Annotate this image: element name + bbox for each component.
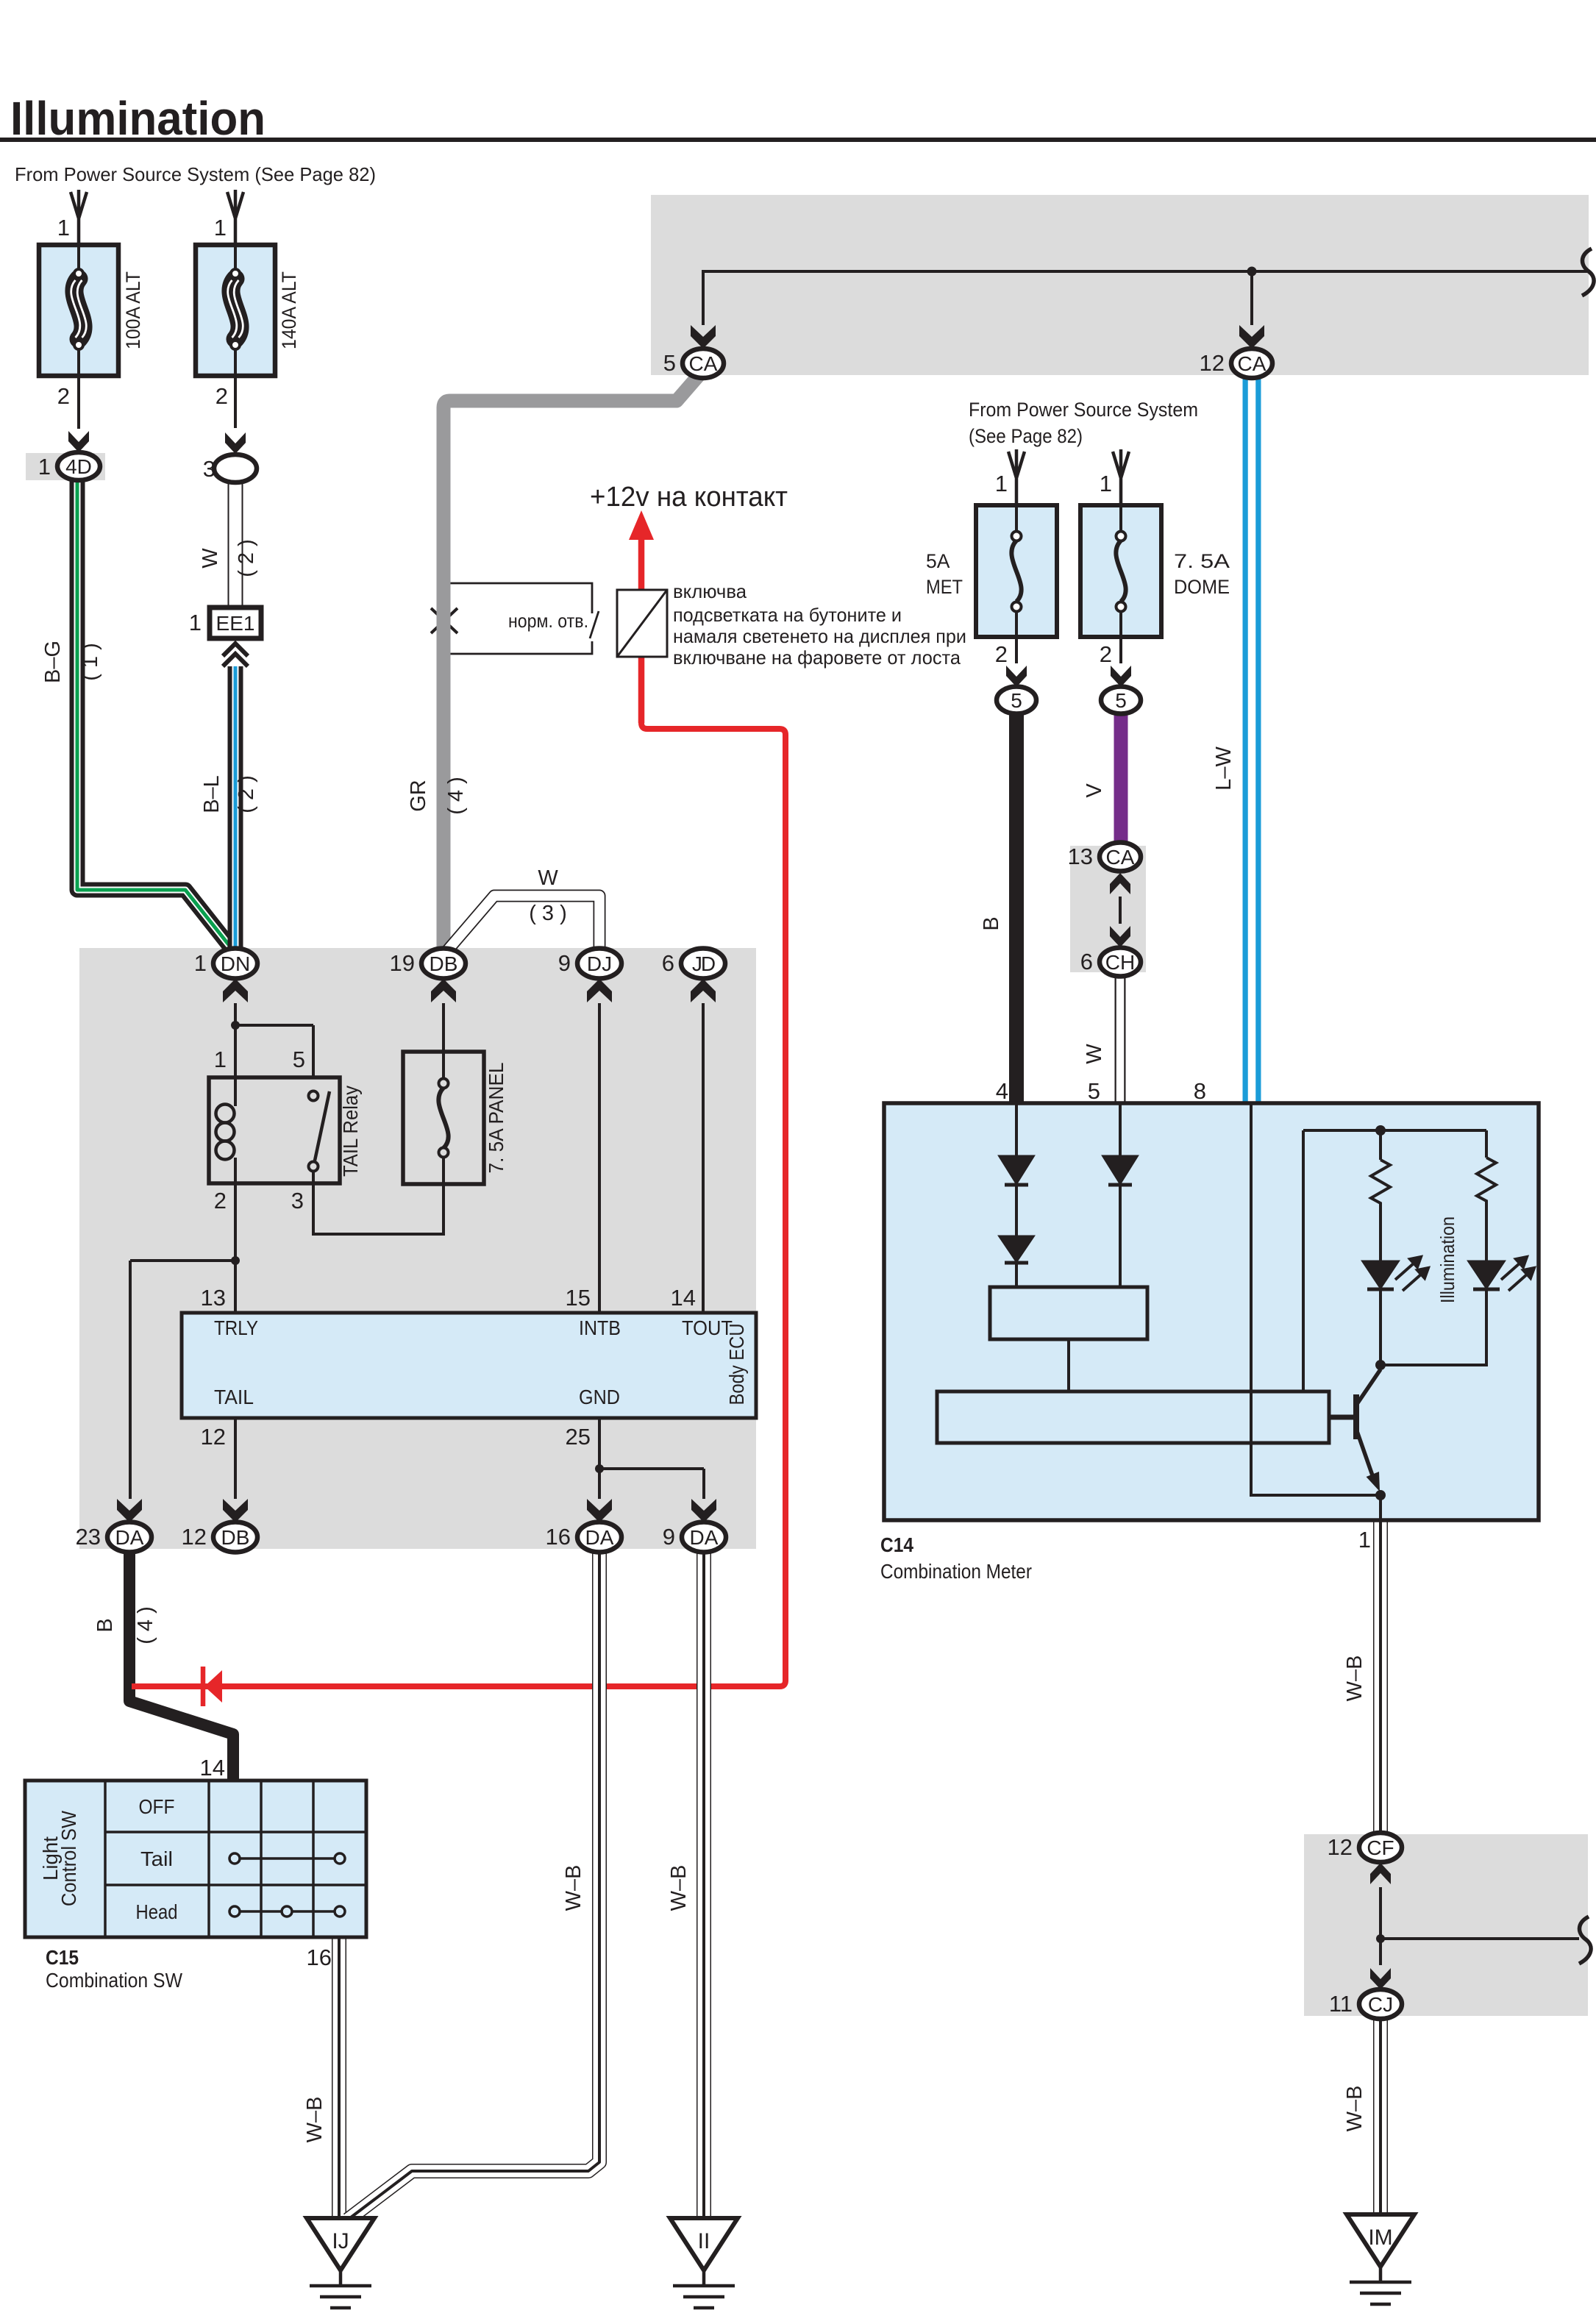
svg-text:1: 1 [1100, 471, 1112, 496]
svg-text:2: 2 [995, 641, 1008, 667]
svg-text:1: 1 [194, 950, 207, 976]
svg-text:B–L: B–L [200, 775, 224, 813]
svg-text:1: 1 [995, 471, 1008, 496]
svg-text:100A ALT: 100A ALT [122, 271, 144, 349]
svg-text:5: 5 [293, 1047, 305, 1072]
svg-text:W: W [199, 548, 222, 569]
svg-text:12: 12 [182, 1524, 207, 1550]
svg-text:1: 1 [38, 454, 51, 480]
svg-text:13: 13 [201, 1285, 226, 1311]
svg-text:7. 5A PANEL: 7. 5A PANEL [485, 1063, 507, 1174]
svg-text:GR: GR [407, 780, 430, 812]
svg-text:W–B: W–B [1343, 1656, 1367, 1702]
svg-text:5: 5 [1115, 689, 1127, 712]
svg-text:13: 13 [1068, 844, 1093, 869]
svg-text:5: 5 [663, 350, 676, 376]
svg-text:IJ: IJ [332, 2229, 349, 2253]
svg-text:CA: CA [1238, 352, 1267, 375]
svg-text:MET: MET [926, 576, 963, 598]
svg-text:DN: DN [221, 952, 250, 975]
svg-text:CH: CH [1105, 951, 1135, 974]
svg-text:Tail: Tail [140, 1847, 173, 1870]
svg-text:12: 12 [1328, 1834, 1353, 1860]
svg-text:OFF: OFF [139, 1795, 175, 1818]
svg-text:1: 1 [214, 1047, 227, 1072]
svg-text:( 4 ): ( 4 ) [134, 1606, 157, 1644]
svg-text:IM: IM [1368, 2225, 1392, 2250]
svg-text:B: B [93, 1618, 117, 1632]
svg-text:TRLY: TRLY [214, 1316, 258, 1339]
svg-text:From Power Source System: From Power Source System [969, 399, 1198, 421]
svg-text:W: W [538, 866, 558, 890]
svg-text:Combination Meter: Combination Meter [880, 1560, 1032, 1583]
svg-text:1: 1 [189, 610, 202, 635]
svg-text:Body ECU: Body ECU [725, 1324, 748, 1405]
svg-text:W–B: W–B [303, 2097, 327, 2143]
svg-text:140A ALT: 140A ALT [278, 271, 300, 349]
svg-text:намаля светенето на дисплея пр: намаля светенето на дисплея при [673, 625, 966, 647]
svg-text:6: 6 [662, 950, 674, 976]
svg-text:15: 15 [566, 1285, 591, 1311]
svg-text:( 2 ): ( 2 ) [235, 775, 258, 813]
svg-text:JD: JD [692, 952, 715, 975]
svg-text:Combination SW: Combination SW [46, 1969, 182, 1992]
svg-text:19: 19 [390, 950, 415, 976]
svg-text:DJ: DJ [587, 952, 612, 975]
svg-text:подсветката на бутоните и: подсветката на бутоните и [673, 604, 902, 626]
svg-text:TAIL: TAIL [214, 1386, 254, 1408]
svg-text:C14: C14 [880, 1533, 913, 1556]
svg-text:2: 2 [57, 383, 70, 409]
svg-text:TAIL Relay: TAIL Relay [339, 1086, 362, 1177]
svg-text:2: 2 [1100, 641, 1112, 667]
svg-text:16: 16 [546, 1524, 571, 1550]
svg-text:CF: CF [1367, 1836, 1394, 1859]
svg-text:CJ: CJ [1368, 1993, 1393, 2016]
svg-text:25: 25 [566, 1424, 591, 1450]
svg-text:1: 1 [1358, 1527, 1371, 1553]
svg-text:B: B [980, 916, 1003, 930]
svg-text:включване на фаровете от лоста: включване на фаровете от лоста [673, 646, 961, 669]
svg-text:9: 9 [663, 1524, 675, 1550]
svg-text:1: 1 [214, 215, 227, 240]
svg-text:DA: DA [690, 1526, 719, 1549]
svg-text:Illumination: Illumination [10, 92, 266, 145]
svg-text:DA: DA [585, 1526, 614, 1549]
svg-text:(See Page 82): (See Page 82) [969, 425, 1083, 447]
svg-text:2: 2 [215, 383, 228, 409]
svg-text:12: 12 [1200, 350, 1225, 376]
svg-text:From Power Source System (See: From Power Source System (See Page 82) [15, 163, 376, 185]
svg-text:Control SW: Control SW [57, 1810, 80, 1906]
svg-text:включва: включва [673, 580, 747, 602]
svg-text:DOME: DOME [1174, 576, 1230, 598]
svg-text:DA: DA [115, 1526, 144, 1549]
svg-text:W–B: W–B [1343, 2086, 1367, 2132]
svg-text:5: 5 [1011, 689, 1022, 712]
svg-text:V: V [1083, 783, 1106, 798]
svg-text:7. 5A: 7. 5A [1174, 550, 1230, 572]
svg-text:CA: CA [1106, 846, 1135, 869]
svg-text:W–B: W–B [667, 1865, 691, 1911]
svg-text:Illumination: Illumination [1436, 1216, 1458, 1303]
svg-text:6: 6 [1080, 949, 1093, 974]
svg-text:INTB: INTB [579, 1316, 621, 1339]
svg-text:Head: Head [136, 1900, 178, 1923]
svg-text:1: 1 [57, 215, 70, 240]
svg-text:4: 4 [996, 1078, 1008, 1104]
svg-text:DB: DB [430, 952, 458, 975]
svg-text:( 4 ): ( 4 ) [444, 777, 468, 815]
svg-text:8: 8 [1194, 1078, 1206, 1104]
svg-text:23: 23 [76, 1524, 101, 1550]
svg-text:L–W: L–W [1212, 746, 1236, 791]
svg-text:4D: 4D [65, 455, 92, 478]
svg-text:9: 9 [558, 950, 571, 976]
svg-text:( 2 ): ( 2 ) [235, 539, 258, 577]
svg-text:DB: DB [221, 1526, 250, 1549]
svg-text:W–B: W–B [562, 1865, 585, 1911]
svg-text:II: II [698, 2229, 710, 2253]
svg-text:3: 3 [203, 456, 215, 482]
svg-text:3: 3 [291, 1188, 304, 1213]
svg-text:2: 2 [214, 1188, 227, 1213]
svg-text:11: 11 [1329, 1991, 1353, 2017]
svg-text:5: 5 [1088, 1078, 1100, 1104]
svg-text:B–G: B–G [41, 641, 65, 683]
svg-text:( 1 ): ( 1 ) [79, 643, 102, 681]
svg-text:12: 12 [201, 1424, 226, 1450]
svg-text:W: W [1083, 1044, 1106, 1064]
svg-text:EE1: EE1 [216, 612, 255, 635]
svg-text:CA: CA [689, 352, 718, 375]
svg-text:+12v на контакт: +12v на контакт [590, 482, 788, 513]
svg-text:5A: 5A [926, 550, 950, 572]
svg-text:C15: C15 [46, 1946, 79, 1969]
svg-text:GND: GND [579, 1386, 620, 1408]
svg-text:16: 16 [307, 1945, 332, 1970]
svg-text:норм. отв.: норм. отв. [508, 610, 588, 632]
svg-text:( 3 ): ( 3 ) [529, 902, 567, 925]
svg-text:14: 14 [200, 1755, 225, 1781]
svg-text:14: 14 [671, 1285, 696, 1311]
